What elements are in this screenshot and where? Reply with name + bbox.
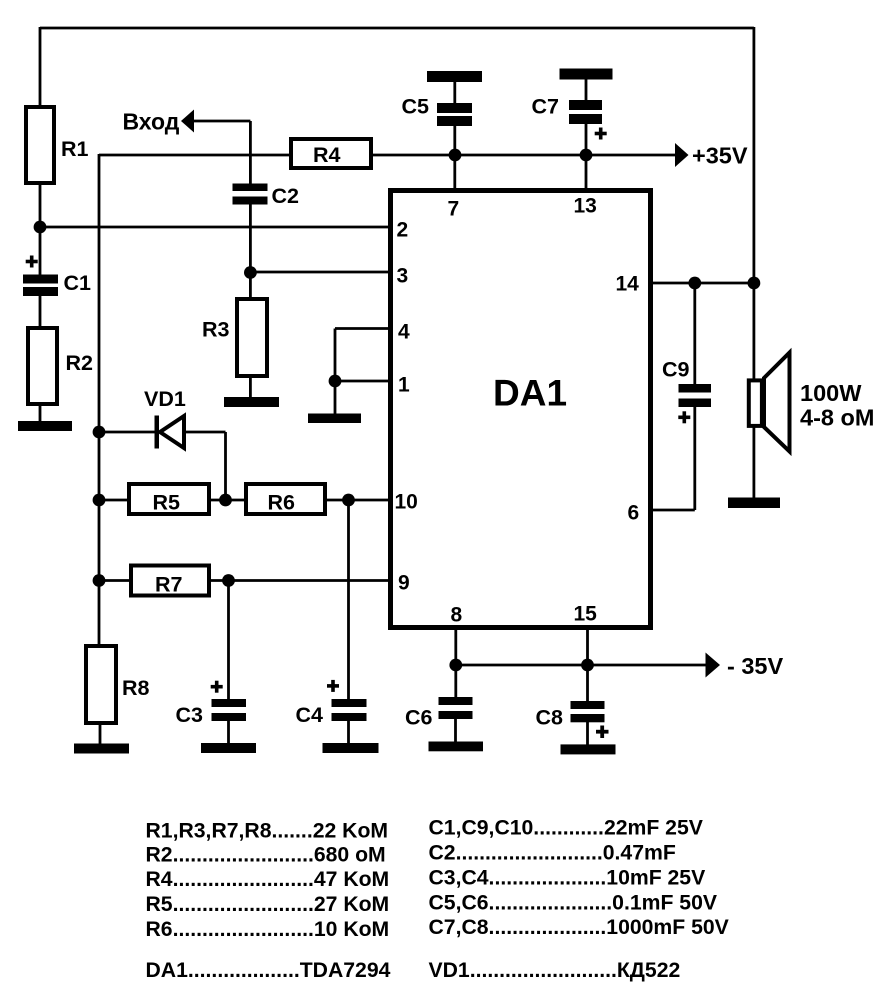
svg-text:C7: C7 [532, 95, 560, 119]
svg-text:C2: C2 [272, 184, 300, 208]
svg-text:R2: R2 [66, 351, 94, 375]
svg-text:R7: R7 [155, 573, 183, 597]
svg-text:10: 10 [395, 491, 418, 514]
svg-text:R6: R6 [268, 491, 296, 515]
svg-text:+35V: +35V [692, 143, 748, 169]
svg-text:C5,C6.....................0.1m: C5,C6.....................0.1mF 50V [429, 891, 718, 914]
svg-text:13: 13 [574, 195, 597, 218]
svg-text:8: 8 [451, 604, 463, 627]
svg-text:15: 15 [574, 603, 598, 626]
svg-text:C1,C9,C10............22mF 25V: C1,C9,C10............22mF 25V [429, 817, 703, 840]
svg-text:2: 2 [397, 219, 409, 242]
svg-text:7: 7 [448, 198, 460, 221]
svg-text:C7,C8....................1000m: C7,C8....................1000mF 50V [429, 916, 729, 939]
svg-text:R8: R8 [122, 676, 150, 700]
svg-text:14: 14 [616, 273, 640, 296]
svg-text:C2.........................0.4: C2.........................0.47mF [429, 842, 676, 865]
svg-text:C8: C8 [536, 706, 564, 730]
svg-text:R4........................47 K: R4........................47 KoM [146, 868, 390, 891]
svg-text:C3: C3 [176, 703, 204, 727]
svg-text:C5: C5 [402, 95, 430, 119]
svg-text:R4: R4 [313, 143, 341, 167]
svg-text:DA1...................TDA7294: DA1...................TDA7294 [146, 959, 391, 982]
svg-text:Вход: Вход [123, 109, 180, 135]
svg-text:C3,C4....................10mF: C3,C4....................10mF 25V [429, 866, 706, 889]
svg-text:R1,R3,R7,R8.......22 KoM: R1,R3,R7,R8.......22 KoM [146, 819, 389, 842]
svg-text:DA1: DA1 [493, 373, 567, 414]
svg-text:C6: C6 [405, 706, 433, 730]
svg-text:6: 6 [628, 502, 640, 525]
svg-text:R6........................10 K: R6........................10 KoM [146, 918, 390, 941]
svg-text:- 35V: - 35V [727, 653, 783, 679]
svg-text:R1: R1 [61, 137, 89, 161]
svg-text:C4: C4 [296, 703, 324, 727]
svg-text:VD1.........................КД: VD1.........................КД522 [429, 959, 681, 982]
svg-text:3: 3 [397, 265, 409, 288]
svg-text:VD1: VD1 [144, 387, 186, 411]
svg-text:R3: R3 [202, 318, 230, 342]
svg-text:C1: C1 [64, 271, 92, 295]
svg-text:9: 9 [398, 572, 410, 595]
svg-text:4-8 oM: 4-8 oM [800, 405, 874, 431]
svg-text:R5: R5 [153, 491, 181, 515]
svg-text:100W: 100W [800, 380, 862, 406]
svg-text:C9: C9 [662, 358, 690, 382]
svg-text:R2........................680: R2........................680 oM [146, 843, 386, 866]
svg-text:1: 1 [398, 374, 410, 397]
svg-text:R5........................27 K: R5........................27 KoM [146, 893, 390, 916]
svg-text:4: 4 [398, 321, 410, 344]
